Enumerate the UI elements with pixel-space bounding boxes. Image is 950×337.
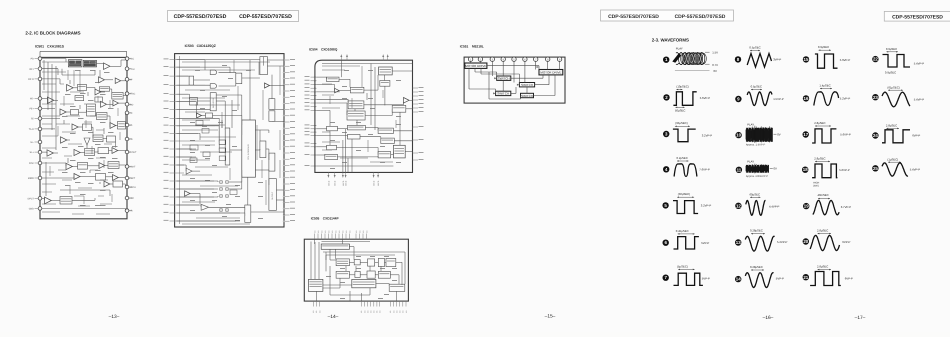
IC503 register tall box xyxy=(210,93,216,111)
IC501 internal wires xyxy=(42,58,66,60)
svg-text:0.5μSEC: 0.5μSEC xyxy=(751,85,762,89)
IC501 laser block xyxy=(118,122,126,130)
svg-text:PLAY: PLAY xyxy=(676,46,683,50)
IC501 comp A18 xyxy=(99,163,105,169)
IC501 logic block2 xyxy=(107,136,116,142)
svg-text:12: 12 xyxy=(736,203,741,208)
svg-text:–13–: –13– xyxy=(109,314,120,320)
svg-text:RF I: RF I xyxy=(29,68,34,71)
IC504 clock gen box xyxy=(379,67,393,75)
IC501 defect hold block xyxy=(112,92,123,99)
IC501 ref block xyxy=(60,197,72,205)
IC503 extra small boxes xyxy=(196,121,203,126)
svg-text:ABCD: ABCD xyxy=(377,180,380,186)
waveform 17 square 2.8usec a xyxy=(803,121,851,143)
svg-text:14: 14 xyxy=(736,277,741,282)
IC504 digital filter box xyxy=(350,87,364,93)
IC503 left pin feed wires xyxy=(177,59,206,61)
IC504 box5 xyxy=(325,154,338,159)
svg-text:CXD1088Q: CXD1088Q xyxy=(321,48,338,52)
svg-text:SWITCH: SWITCH xyxy=(498,77,510,81)
IC505 data bus box xyxy=(352,279,376,287)
IC505 row2 box1 xyxy=(336,271,349,278)
svg-text:Approx. 1.6VP-P: Approx. 1.6VP-P xyxy=(746,144,766,147)
IC501 CXA1081S block diagram xyxy=(28,45,137,219)
svg-text:FE+: FE+ xyxy=(30,108,35,111)
svg-text:2 LM: 2 LM xyxy=(129,68,134,71)
IC501 focus ok comp A4 xyxy=(95,89,101,95)
svg-text:SL+: SL+ xyxy=(30,151,35,154)
svg-text:VEE: VEE xyxy=(129,197,134,200)
svg-text:CDP-557ESD/707ESD: CDP-557ESD/707ESD xyxy=(174,14,227,20)
IC501 window block xyxy=(78,163,88,170)
svg-text:18: 18 xyxy=(803,167,808,172)
svg-text:50μSEC: 50μSEC xyxy=(675,109,685,113)
svg-text:1.5V: 1.5V xyxy=(712,51,718,55)
IC501 outline xyxy=(40,57,127,218)
waveform 9 sine 0.5usec xyxy=(735,85,784,106)
waveform 14 sine 0.28usec xyxy=(735,265,784,288)
IC503 small amp1 xyxy=(197,113,202,118)
svg-text:C OUT: C OUT xyxy=(129,151,137,154)
svg-text:1.4μSEC: 1.4μSEC xyxy=(819,84,830,88)
svg-text:ABCD: ABCD xyxy=(345,180,348,186)
IC501 over-top wire xyxy=(40,50,127,52)
IC504 left pins xyxy=(311,76,317,78)
IC503 right amp xyxy=(265,83,270,88)
IC503 internal wires xyxy=(177,59,260,61)
IC503 ram box xyxy=(269,99,275,110)
IC501 mid amp A11 xyxy=(72,124,78,130)
IC501 amp A21 xyxy=(45,197,52,204)
svg-text:TE: TE xyxy=(31,118,34,121)
IC504 right box b2 xyxy=(381,138,395,143)
svg-text:0.28μSEC: 0.28μSEC xyxy=(750,229,763,233)
IC505 output box xyxy=(389,284,405,291)
IC501 RF summing amp A1 xyxy=(104,63,111,70)
IC505 addr control box xyxy=(308,279,323,291)
IC501 logic block1 xyxy=(93,135,103,142)
IC505 tiny annotations xyxy=(356,255,361,258)
svg-text:(600): (600) xyxy=(813,185,819,188)
IC503 small box row xyxy=(206,113,213,118)
waveform 4 rounded pulses xyxy=(663,156,710,177)
svg-text:CDP-557ESD/707ESD: CDP-557ESD/707ESD xyxy=(675,14,726,20)
svg-text:0.5μSEC: 0.5μSEC xyxy=(749,46,760,50)
waveform 20 sine 2.8usec xyxy=(803,228,851,250)
IC503 tiny annotation texts xyxy=(195,69,200,72)
IC501 end block xyxy=(113,181,123,187)
IC505 row1 box4 xyxy=(378,258,384,266)
svg-text:15: 15 xyxy=(804,57,809,62)
IC505 top pins xyxy=(314,234,316,240)
IC503 tri buffer2 xyxy=(201,204,209,210)
IC505 row2 box4 xyxy=(378,271,390,278)
IC501 focus search block xyxy=(97,113,108,120)
svg-text:13: 13 xyxy=(736,240,741,245)
svg-text:5VP-P: 5VP-P xyxy=(701,241,709,245)
IC551 motor drive box left xyxy=(465,63,487,68)
svg-text:ABCD: ABCD xyxy=(342,180,345,186)
svg-text:LD: LD xyxy=(129,124,132,127)
IC503 pll box xyxy=(236,73,242,84)
IC503 sync gate1 xyxy=(210,70,217,75)
IC504 box4 xyxy=(327,145,337,150)
IC504 right tri xyxy=(404,98,410,104)
IC505 row1 box2 xyxy=(354,260,360,265)
svg-text:IC505: IC505 xyxy=(311,217,320,221)
svg-text:–14–: –14– xyxy=(328,314,339,320)
waveform 5 inverted square 50usec xyxy=(662,192,711,214)
svg-text:5VP-P: 5VP-P xyxy=(776,277,784,281)
svg-text:10: 10 xyxy=(736,133,741,138)
IC504 top pins xyxy=(340,55,342,61)
IC503 crystal buffer xyxy=(186,168,192,174)
IC551 switch box 4 xyxy=(521,93,534,97)
IC501 RF EQ block xyxy=(68,60,82,67)
IC503 right mid box2 xyxy=(269,153,275,171)
svg-text:4.4VP-P: 4.4VP-P xyxy=(769,204,780,208)
IC503 CXD1125QZ block diagram xyxy=(164,44,296,227)
IC501 amp A15 xyxy=(74,149,80,155)
svg-text:0V: 0V xyxy=(714,69,718,73)
IC503 top-right control box xyxy=(260,57,268,75)
svg-text:0.9μSEC: 0.9μSEC xyxy=(818,45,829,49)
waveform 8 triangle wave xyxy=(735,46,782,68)
IC503 right mid box1 xyxy=(260,141,266,158)
IC501 mirror amp A7 xyxy=(101,101,107,107)
svg-text:5.6VP-P: 5.6VP-P xyxy=(840,133,851,137)
IC504 tiny annotations xyxy=(344,69,349,72)
IC501 vco block xyxy=(75,96,84,101)
svg-text:ISO: ISO xyxy=(129,103,133,106)
waveform 11 PLAY noise band small xyxy=(736,159,777,178)
IC505 internal wires xyxy=(314,239,316,244)
IC504 big right box xyxy=(393,145,405,158)
waveform 3 square 95usec xyxy=(663,121,712,142)
svg-text:0.2μSEC: 0.2μSEC xyxy=(677,156,688,160)
svg-text:SWITCH: SWITCH xyxy=(497,92,509,96)
svg-text:ABCD: ABCD xyxy=(327,180,330,186)
IC551 top pin circles xyxy=(468,57,472,61)
svg-text:5.2VP-P: 5.2VP-P xyxy=(840,96,851,100)
IC501 comparator block xyxy=(99,87,109,91)
IC505 outline xyxy=(304,239,408,301)
IC503 left vertical bus xyxy=(179,56,181,224)
svg-text:(10μSEC): (10μSEC) xyxy=(676,85,688,89)
IC505 CXD1144P block diagram xyxy=(304,217,408,314)
IC505 row1 box3 xyxy=(368,259,375,266)
svg-text:19: 19 xyxy=(804,204,809,209)
IC504 right box xyxy=(392,105,406,112)
IC503 cpu interface big box xyxy=(242,120,256,177)
svg-text:FE-: FE- xyxy=(30,98,34,101)
IC503 tri buffer1 xyxy=(185,191,191,196)
IC501 TE amp A6 xyxy=(47,97,53,103)
IC501 output buffer A3 xyxy=(115,78,121,84)
svg-text:2-3. WAVEFORMS: 2-3. WAVEFORMS xyxy=(652,38,689,43)
svg-text:23: 23 xyxy=(873,95,878,100)
svg-text:(50μSEC): (50μSEC) xyxy=(678,192,690,196)
waveform 23 sine 61usec xyxy=(872,85,924,107)
svg-text:PD: PD xyxy=(31,58,35,61)
svg-text:0.9μSEC: 0.9μSEC xyxy=(885,71,896,75)
svg-text:SRCH: SRCH xyxy=(129,186,136,189)
IC503 mid small boxes xyxy=(219,140,226,145)
IC501 RF AGC block xyxy=(83,60,96,67)
svg-text:VR: VR xyxy=(129,210,133,213)
waveform 16 trapezoid wave xyxy=(803,84,851,106)
svg-text:40mSEC: 40mSEC xyxy=(818,193,829,197)
svg-text:3.7VP-P: 3.7VP-P xyxy=(841,205,852,209)
svg-text:2-2. IC BLOCK DIAGRAMS: 2-2. IC BLOCK DIAGRAMS xyxy=(25,30,80,35)
IC551 switch box 2 xyxy=(519,83,534,87)
svg-text:SWITCH: SWITCH xyxy=(521,83,533,87)
waveform 15 square 0.9usec xyxy=(803,45,851,68)
IC504 bottom pins xyxy=(327,172,329,177)
svg-text:GND: GND xyxy=(29,208,34,211)
svg-text:TA O: TA O xyxy=(29,128,34,131)
svg-text:5.6VP-P: 5.6VP-P xyxy=(839,168,850,172)
svg-text:3.2VP-P: 3.2VP-P xyxy=(702,134,713,138)
svg-text:MOTOR DRIVE: MOTOR DRIVE xyxy=(540,71,561,75)
svg-text:VC: VC xyxy=(129,112,133,115)
IC501 sled gain box xyxy=(71,110,79,115)
svg-text:5.6VP-P: 5.6VP-P xyxy=(840,58,851,62)
svg-text:(5μSEC): (5μSEC) xyxy=(677,264,688,268)
svg-text:25: 25 xyxy=(873,166,878,171)
svg-text:CPU INTERFACE: CPU INTERFACE xyxy=(247,143,250,160)
IC501 amp A14 xyxy=(47,150,53,156)
svg-text:ABCD: ABCD xyxy=(334,180,337,186)
svg-text:21: 21 xyxy=(803,275,808,280)
IC504 buffer tri1 xyxy=(335,88,340,93)
svg-text:2.8μSEC: 2.8μSEC xyxy=(886,124,897,128)
IC503 efm block xyxy=(189,76,194,85)
svg-text:DFCT: DFCT xyxy=(28,197,35,200)
IC503 right pins xyxy=(283,59,285,61)
svg-text:(1μSEC): (1μSEC) xyxy=(887,157,898,161)
svg-text:0.45μSEC: 0.45μSEC xyxy=(676,229,689,233)
svg-text:0.9μSEC: 0.9μSEC xyxy=(886,47,897,51)
IC504 noise shaper box xyxy=(347,111,365,120)
IC504 interpolation box xyxy=(348,101,364,109)
IC504 right box b3 xyxy=(378,152,391,158)
svg-text:2.8μSEC: 2.8μSEC xyxy=(817,264,828,268)
IC504 corner wire top xyxy=(322,63,413,65)
svg-text:11: 11 xyxy=(737,167,742,172)
svg-text:VCC: VCC xyxy=(129,58,134,61)
waveform 24 square 2.8usec xyxy=(872,124,920,143)
svg-text:3VP-P: 3VP-P xyxy=(773,57,781,61)
svg-text:2.8μSEC: 2.8μSEC xyxy=(814,156,825,160)
IC501 out comp A22 xyxy=(104,181,110,187)
IC505 row1 box1 xyxy=(336,259,349,266)
IC505 memory check box xyxy=(321,244,349,249)
IC501 center block column xyxy=(87,104,96,116)
IC504 vco box xyxy=(380,81,390,87)
svg-text:MOTOR DRIVE: MOTOR DRIVE xyxy=(465,64,486,68)
svg-text:16: 16 xyxy=(804,96,809,101)
svg-text:5VP-P: 5VP-P xyxy=(702,276,710,280)
svg-text:5.4VP-P: 5.4VP-P xyxy=(910,167,921,171)
IC551 outline xyxy=(464,57,565,103)
waveform 18 square 2.8usec b xyxy=(802,156,850,187)
IC504 box3 xyxy=(347,135,360,140)
svg-text:0.7V: 0.7V xyxy=(712,63,718,67)
svg-text:1.5VP-P: 1.5VP-P xyxy=(773,97,784,101)
svg-text:6VP-P: 6VP-P xyxy=(912,134,920,138)
svg-text:5.6VP-P: 5.6VP-P xyxy=(700,96,711,100)
svg-text:2.8μSEC: 2.8μSEC xyxy=(817,228,828,232)
IC503 eight-to-fourteen box xyxy=(190,98,198,106)
svg-text:5.4VP-P: 5.4VP-P xyxy=(914,98,925,102)
IC503 extra mesh wires xyxy=(182,61,270,63)
IC501 right pins xyxy=(125,57,129,61)
waveform 19 sine 60usec xyxy=(803,193,851,215)
IC504 internal wires xyxy=(317,76,327,78)
IC501 out amp A16 xyxy=(112,148,118,154)
svg-text:IC503: IC503 xyxy=(185,44,194,48)
svg-text:22: 22 xyxy=(873,57,878,62)
svg-text:SWITCH: SWITCH xyxy=(521,94,533,98)
IC504 input box xyxy=(327,77,339,82)
svg-text:24: 24 xyxy=(873,133,878,138)
waveform 6 square 0.45usec xyxy=(663,229,710,249)
svg-text:60μSEC: 60μSEC xyxy=(750,193,760,197)
IC501 mid block xyxy=(83,124,92,130)
IC501 drive block xyxy=(108,162,119,169)
svg-text:6VP-P: 6VP-P xyxy=(842,240,850,244)
svg-text:M5218L: M5218L xyxy=(472,44,484,48)
IC551 motor drive box right xyxy=(539,70,563,75)
IC503 left pins xyxy=(170,59,177,61)
IC503 outline xyxy=(175,54,284,227)
IC501 left pins xyxy=(38,57,42,61)
svg-text:FSET: FSET xyxy=(129,177,135,180)
waveform 2 focus error pulse xyxy=(663,85,710,113)
svg-text:MIRR: MIRR xyxy=(28,177,34,180)
svg-text:REGISTER: REGISTER xyxy=(212,97,215,108)
svg-text:CDP-557ESD/707ESD: CDP-557ESD/707ESD xyxy=(892,14,943,20)
IC501 defect comp A8 xyxy=(113,100,119,106)
IC501 apc amp A10 xyxy=(110,123,116,129)
IC501 tracking gain block xyxy=(78,85,87,91)
IC503 ram box2 xyxy=(269,111,275,122)
IC505 bottom pins xyxy=(312,301,314,306)
IC503 sync gate2 xyxy=(210,84,217,89)
IC501 amp A17 xyxy=(66,163,72,169)
svg-text:0V: 0V xyxy=(777,133,781,137)
svg-text:OUTPUT: OUTPUT xyxy=(271,191,274,200)
IC501 triangle sym A12 xyxy=(84,138,90,145)
svg-text:IC504: IC504 xyxy=(309,48,318,52)
svg-text:IC551: IC551 xyxy=(460,44,469,48)
header box page17 CDP-557ESD/707ESD xyxy=(884,11,950,21)
IC501 sub block xyxy=(85,149,95,156)
svg-text:CDP-557ESD/707ESD: CDP-557ESD/707ESD xyxy=(608,14,659,20)
svg-text:CDP-557ESD/707ESD: CDP-557ESD/707ESD xyxy=(239,14,292,20)
waveform 22 square 0.9usec xyxy=(872,47,924,75)
svg-text:PLAY: PLAY xyxy=(747,159,754,163)
IC501 hold cap block xyxy=(95,97,103,102)
svg-text:XSHT: XSHT xyxy=(129,166,136,169)
IC504 right box b1 xyxy=(378,128,393,133)
svg-text:0.28μSEC: 0.28μSEC xyxy=(750,265,763,269)
IC551 wire arrows xyxy=(494,77,497,79)
IC503 right tall box3 xyxy=(269,179,277,211)
svg-text:–17–: –17– xyxy=(855,315,866,321)
svg-text:PD: PD xyxy=(129,138,133,141)
IC501 bias block xyxy=(96,174,106,181)
IC501 amp A19 xyxy=(74,174,80,180)
waveform 21 square 2.8usec xyxy=(803,264,853,285)
svg-text:CXD1144P: CXD1144P xyxy=(323,217,340,221)
svg-text:–16–: –16– xyxy=(763,315,774,321)
IC501 shock block xyxy=(98,148,109,154)
svg-text:CXA1081S: CXA1081S xyxy=(47,45,65,49)
IC504 CXD1088Q block diagram xyxy=(305,48,424,187)
svg-text:20: 20 xyxy=(803,239,808,244)
IC501 tiny annotation texts xyxy=(75,69,81,72)
IC501 sled amp A9 xyxy=(60,109,66,115)
svg-text:ATSC: ATSC xyxy=(129,93,135,96)
svg-text:RF O: RF O xyxy=(28,78,34,81)
IC551 switch box 1 xyxy=(497,76,511,80)
svg-text:ABCD: ABCD xyxy=(373,180,376,186)
waveform 10 PLAY noise band xyxy=(735,122,780,146)
svg-text:PLAY: PLAY xyxy=(747,122,754,126)
IC505 row2 box2 xyxy=(355,271,360,277)
svg-text:17: 17 xyxy=(803,132,808,137)
IC501 tracking amp A5 xyxy=(67,85,74,92)
svg-text:3.2VP-P: 3.2VP-P xyxy=(701,203,712,207)
IC501 extra mesh wires xyxy=(42,61,68,63)
waveform 12 sine 60usec xyxy=(735,193,779,216)
IC551 wires xyxy=(470,61,472,63)
IC501 focus error amp A2 xyxy=(99,77,105,83)
IC505 row1 box5 xyxy=(386,258,396,266)
IC504 right pins xyxy=(413,87,419,89)
svg-text:7.6VP-P: 7.6VP-P xyxy=(699,167,710,171)
svg-text:SL-: SL- xyxy=(30,141,34,144)
svg-text:IC501: IC501 xyxy=(35,45,44,49)
svg-text:5.2VP-P: 5.2VP-P xyxy=(777,240,788,244)
header box page15-16 CDP-557ESD/707ESD xyxy=(601,10,734,21)
IC551 switch box 3 xyxy=(496,91,511,95)
waveform 25 sine 1usec xyxy=(872,157,920,176)
IC501 error amp A13 xyxy=(61,137,67,143)
svg-text:5.4VP-P: 5.4VP-P xyxy=(914,61,925,65)
svg-text:Approx. 600mVP-P: Approx. 600mVP-P xyxy=(746,175,768,178)
svg-text:–15–: –15– xyxy=(545,314,556,320)
svg-text:0V: 0V xyxy=(774,167,778,171)
svg-text:6VP-P: 6VP-P xyxy=(845,276,853,280)
waveform 1 RF eye pattern xyxy=(663,46,718,73)
IC503 bottom box xyxy=(245,205,251,222)
svg-text:(61μSEC): (61μSEC) xyxy=(887,85,899,89)
svg-text:FOK: FOK xyxy=(29,162,34,165)
IC501 amp A20 xyxy=(113,175,119,181)
header box page13-14 CDP-557ESD/707ESD xyxy=(168,11,299,22)
IC504 wide box2 xyxy=(347,125,365,129)
svg-text:(95μSEC): (95μSEC) xyxy=(675,121,687,125)
IC504 outline xyxy=(315,60,413,172)
IC504 extra mesh wires xyxy=(322,65,360,67)
IC503 osc circles xyxy=(219,180,223,184)
IC505 row2 box3 xyxy=(367,271,375,278)
IC551 servo connection diagram xyxy=(460,44,565,103)
